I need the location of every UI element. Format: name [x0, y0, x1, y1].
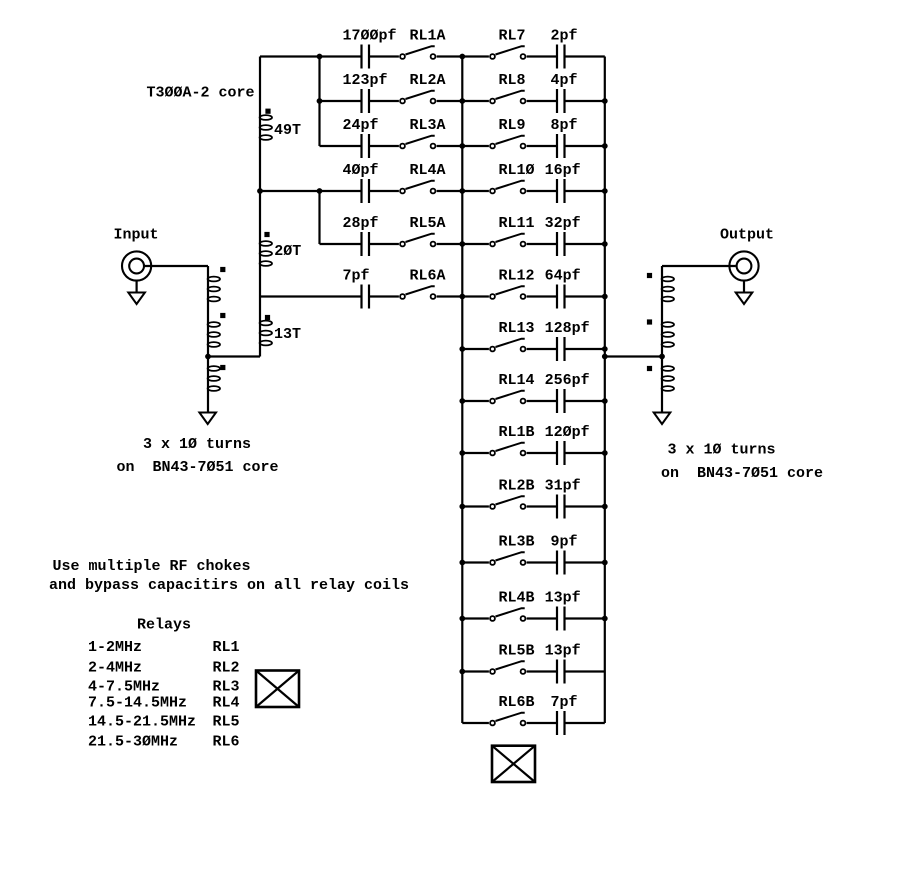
svg-text:256pf: 256pf — [545, 372, 590, 389]
svg-text:on BN43-7Ø51 core: on BN43-7Ø51 core — [661, 465, 823, 482]
svg-text:31pf: 31pf — [545, 478, 581, 495]
svg-text:T3ØØA-2 core: T3ØØA-2 core — [147, 85, 255, 102]
svg-text:Relays: Relays — [137, 616, 191, 633]
svg-text:13T: 13T — [274, 326, 301, 343]
svg-text:Use multiple RF chokes: Use multiple RF chokes — [53, 558, 251, 575]
svg-text:28pf: 28pf — [343, 215, 379, 232]
svg-text:21.5-3ØMHz: 21.5-3ØMHz — [88, 733, 178, 750]
svg-text:RL5B: RL5B — [499, 643, 535, 660]
svg-text:49T: 49T — [274, 122, 301, 139]
svg-text:RL3: RL3 — [213, 679, 240, 696]
svg-text:32pf: 32pf — [545, 215, 581, 232]
svg-text:14.5-21.5MHz: 14.5-21.5MHz — [88, 714, 196, 731]
svg-text:12Øpf: 12Øpf — [545, 424, 590, 441]
svg-text:7pf: 7pf — [343, 268, 370, 285]
svg-text:3 x 1Ø turns: 3 x 1Ø turns — [143, 436, 251, 453]
svg-text:RL6A: RL6A — [410, 268, 446, 285]
svg-text:9pf: 9pf — [551, 534, 578, 551]
svg-text:4pf: 4pf — [551, 72, 578, 89]
svg-text:RL13: RL13 — [499, 320, 535, 337]
svg-text:on BN43-7Ø51 core: on BN43-7Ø51 core — [117, 459, 279, 476]
svg-text:64pf: 64pf — [545, 268, 581, 285]
svg-text:RL1A: RL1A — [410, 28, 446, 45]
svg-text:RL6B: RL6B — [499, 694, 535, 711]
svg-text:RL2: RL2 — [213, 660, 240, 677]
svg-text:17ØØpf: 17ØØpf — [343, 28, 397, 45]
svg-text:RL7: RL7 — [499, 28, 526, 45]
svg-text:RL1Ø: RL1Ø — [499, 162, 535, 179]
svg-text:RL11: RL11 — [499, 215, 535, 232]
svg-text:RL5A: RL5A — [410, 215, 446, 232]
svg-text:RL6: RL6 — [213, 733, 240, 750]
svg-text:8pf: 8pf — [551, 117, 578, 134]
svg-text:2pf: 2pf — [551, 28, 578, 45]
svg-text:RL3A: RL3A — [410, 117, 446, 134]
svg-text:RL2A: RL2A — [410, 72, 446, 89]
svg-text:RL8: RL8 — [499, 72, 526, 89]
svg-text:RL1B: RL1B — [499, 424, 535, 441]
svg-text:RL1: RL1 — [213, 639, 240, 656]
svg-text:RL14: RL14 — [499, 372, 535, 389]
svg-text:7.5-14.5MHz: 7.5-14.5MHz — [88, 694, 187, 711]
svg-text:Output: Output — [720, 227, 774, 244]
svg-text:128pf: 128pf — [545, 320, 590, 337]
svg-text:24pf: 24pf — [343, 117, 379, 134]
svg-text:RL12: RL12 — [499, 268, 535, 285]
svg-text:Input: Input — [114, 227, 159, 244]
svg-text:2-4MHz: 2-4MHz — [88, 660, 142, 677]
svg-text:and bypass capacitirs on all r: and bypass capacitirs on all relay coils — [49, 577, 409, 594]
svg-text:13pf: 13pf — [545, 643, 581, 660]
svg-text:3 x 1Ø turns: 3 x 1Ø turns — [668, 442, 776, 459]
svg-text:RL9: RL9 — [499, 117, 526, 134]
svg-text:RL2B: RL2B — [499, 478, 535, 495]
svg-text:7pf: 7pf — [551, 694, 578, 711]
svg-text:16pf: 16pf — [545, 162, 581, 179]
svg-text:RL4B: RL4B — [499, 590, 535, 607]
svg-text:4-7.5MHz: 4-7.5MHz — [88, 679, 160, 696]
svg-text:RL3B: RL3B — [499, 534, 535, 551]
svg-text:RL4: RL4 — [213, 694, 240, 711]
svg-text:RL4A: RL4A — [410, 162, 446, 179]
svg-text:4Øpf: 4Øpf — [343, 162, 379, 179]
svg-text:RL5: RL5 — [213, 714, 240, 731]
svg-text:13pf: 13pf — [545, 590, 581, 607]
svg-text:2ØT: 2ØT — [274, 243, 301, 260]
svg-text:1-2MHz: 1-2MHz — [88, 639, 142, 656]
svg-text:123pf: 123pf — [343, 72, 388, 89]
